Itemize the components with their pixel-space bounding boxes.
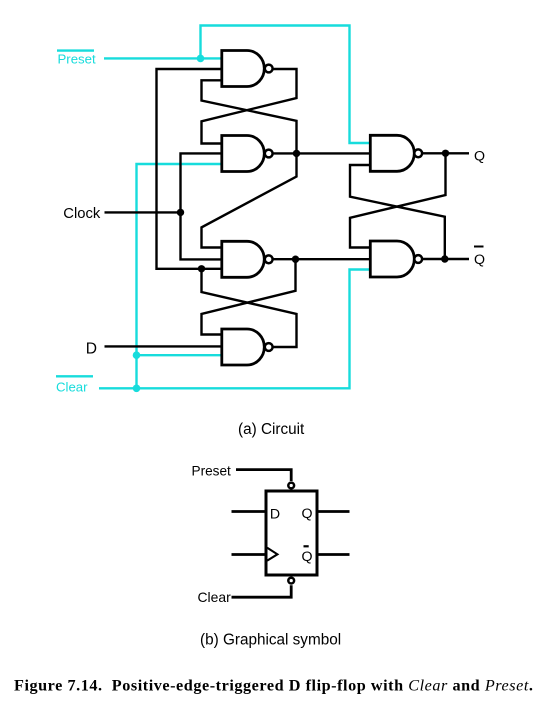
wire gate4-output feedback up to gate1 bbox=[157, 69, 221, 269]
wire Clear lead bbox=[99, 270, 370, 389]
wire Clear riser bbox=[137, 164, 221, 388]
flip-flop box U1 bbox=[266, 491, 317, 575]
NAND gate 6 bbox=[370, 241, 422, 277]
node Preset label bbox=[58, 52, 96, 67]
wire gate2 output long bbox=[271, 152, 370, 154]
wire symbol Qbar overbar bbox=[304, 545, 309, 547]
svg-text:Clear: Clear bbox=[198, 589, 232, 605]
wire gate4 output feedback diagonal bbox=[202, 269, 297, 347]
wire gate2 output feedback to gate1 bbox=[202, 80, 297, 153]
node symbol Clear bubble bbox=[288, 578, 294, 584]
svg-text:Clock: Clock bbox=[63, 206, 101, 222]
wire Q feedback to gate6 bbox=[350, 153, 446, 247]
svg-text:Figure 7.14. Positive-edge-tr: Figure 7.14. Positive-edge-triggered D f… bbox=[14, 677, 534, 695]
node junction gate3 input bbox=[198, 265, 205, 272]
node Preset junction bbox=[197, 55, 205, 63]
svg-text:(b) Graphical symbol: (b) Graphical symbol bbox=[200, 632, 341, 649]
svg-text:Q: Q bbox=[302, 549, 313, 565]
wire Clock lead bbox=[105, 211, 181, 213]
wire D lead bbox=[105, 345, 221, 347]
wire symbol Q output bbox=[318, 510, 350, 513]
node symbol clock chevron bbox=[267, 548, 277, 561]
svg-text:Preset: Preset bbox=[58, 52, 96, 67]
svg-text:Clear: Clear bbox=[56, 379, 88, 394]
NAND gate 4 bbox=[222, 329, 273, 365]
NAND gate 5 bbox=[370, 135, 422, 171]
svg-text:Q: Q bbox=[474, 252, 485, 268]
wire symbol Qbar output bbox=[318, 553, 350, 556]
wire symbol Clear lead bbox=[232, 585, 292, 597]
node junction gate3 output bbox=[292, 256, 299, 263]
node symbol Preset bubble bbox=[288, 483, 294, 489]
svg-text:Preset: Preset bbox=[192, 464, 232, 479]
wire Q output bbox=[422, 152, 469, 154]
svg-text:(a) Circuit: (a) Circuit bbox=[238, 421, 305, 438]
node Clock junction bbox=[177, 209, 184, 216]
node Clear junction upper bbox=[133, 351, 141, 359]
wire Qbar output bbox=[422, 258, 469, 260]
node Clear junction lower bbox=[133, 385, 141, 393]
wire Clock riser to gate2 and gate3 bbox=[181, 153, 221, 259]
node Clear label bbox=[56, 379, 88, 394]
node junction Q bbox=[442, 150, 449, 157]
svg-text:D: D bbox=[270, 507, 280, 523]
wire Qbar label overbar bbox=[474, 246, 484, 248]
node junction gate2 output bbox=[293, 150, 300, 157]
svg-text:D: D bbox=[86, 340, 97, 357]
wire gate3 output long bbox=[271, 258, 370, 260]
wire Clear overbar bbox=[56, 375, 93, 377]
wire symbol Preset lead bbox=[236, 470, 291, 481]
wire Preset up bbox=[201, 26, 371, 144]
wire gate1 output to gate2 input bbox=[202, 69, 297, 144]
node junction Qbar bbox=[441, 255, 448, 262]
wire Clear to gate4 bbox=[137, 354, 221, 356]
wire gate3 output to gate4 input bbox=[202, 259, 296, 334]
wire symbol clock input bbox=[232, 553, 265, 556]
NAND gate 2 bbox=[222, 136, 273, 172]
svg-text:Q: Q bbox=[302, 506, 313, 522]
NAND gate 3 bbox=[222, 241, 273, 277]
NAND gate 1 bbox=[222, 51, 273, 87]
wire Qbar feedback to gate5 bbox=[350, 165, 445, 259]
wire gate2 output diagonal to gate3 bbox=[202, 153, 297, 247]
wire Preset overbar bbox=[57, 49, 94, 51]
wire symbol D input bbox=[232, 510, 265, 513]
svg-text:Q: Q bbox=[474, 148, 485, 164]
wire Preset lead bbox=[104, 57, 221, 59]
